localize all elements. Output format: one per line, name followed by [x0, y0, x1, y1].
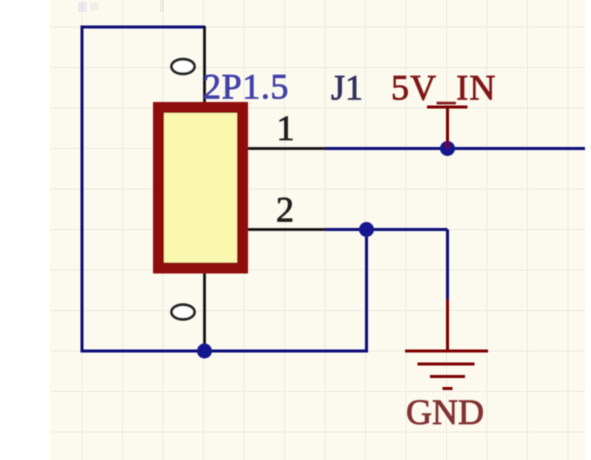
svg-text:2P1.5: 2P1.5	[203, 67, 289, 107]
svg-text:J1: J1	[331, 68, 363, 108]
svg-text:GND: GND	[406, 392, 484, 432]
svg-text:5V_IN: 5V_IN	[391, 68, 496, 108]
svg-text:1: 1	[277, 108, 295, 148]
svg-text:2: 2	[276, 190, 294, 230]
